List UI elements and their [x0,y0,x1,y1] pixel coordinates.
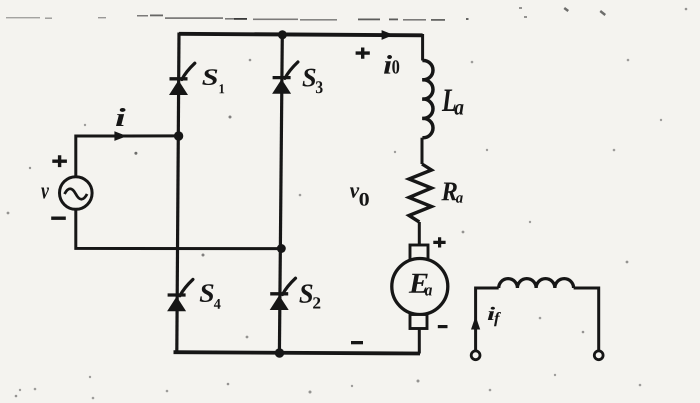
thyristor S3 [272,62,298,94]
inductor La [422,60,433,137]
label S4_S [200,284,214,302]
label v_src [41,188,49,199]
plus sign source [52,155,67,167]
plus sign v0 top [356,48,370,59]
minus sign motor [438,325,448,328]
label S1_1 [220,84,225,93]
scan noise top line [6,15,469,21]
thyristor S4 [167,279,193,311]
thyristor S1 [169,63,195,95]
wire inductor to resistor [421,138,424,164]
label La_L [442,90,456,112]
field terminal right [594,351,603,360]
label Ea_E [409,274,428,293]
wire resistor to motor [418,222,421,246]
label S4_4 [214,299,221,309]
field terminal left [471,351,480,360]
plus sign motor [433,237,445,247]
motor brush box bottom [410,315,427,329]
label S2_S [299,284,312,303]
wire motor to bottom rail [418,329,421,354]
arrow current i [114,131,127,141]
wire top rail [179,34,423,36]
minus sign source [51,217,66,220]
wire right bridge leg [279,35,282,354]
label i0_i [384,55,392,74]
wire load branch top [421,34,424,61]
minus sign v0 bottom [351,341,363,344]
label S3_3 [316,81,323,93]
label S2_2 [313,297,320,308]
label i_main [116,108,126,126]
arrow current i0 [382,30,394,40]
motor brush box top [410,245,428,260]
wire source bottom to right leg [76,210,282,249]
motor armature circle Ea [392,259,448,315]
field inductor coil [499,279,574,288]
label i0_0 [392,60,399,73]
wire bottom rail [174,352,421,353]
field winding left lead [476,288,499,351]
label S1_S [202,69,217,85]
wire source top to bridge [76,136,179,176]
arrow current if [471,316,480,330]
label v0_0 [360,193,369,206]
wire left bridge leg [177,33,179,354]
label Ea_a [425,287,432,295]
junction node source bottom / right leg [277,244,286,253]
ac source sine [65,189,88,200]
label if_i [488,307,495,320]
resistor Ra [409,164,432,222]
label v0_v [350,187,359,197]
junction node bottom rail / right leg [275,348,284,357]
field winding right lead [574,288,599,351]
label S3_S [303,69,316,87]
junction node top rail / right leg [278,30,287,39]
junction node source top / left leg [174,131,183,140]
thyristor S2 [270,278,296,310]
label if_f [494,312,501,326]
label Ra_a [456,195,463,203]
ac source circle [60,177,93,210]
label La_a [455,104,464,115]
label Ra_R [441,183,457,201]
